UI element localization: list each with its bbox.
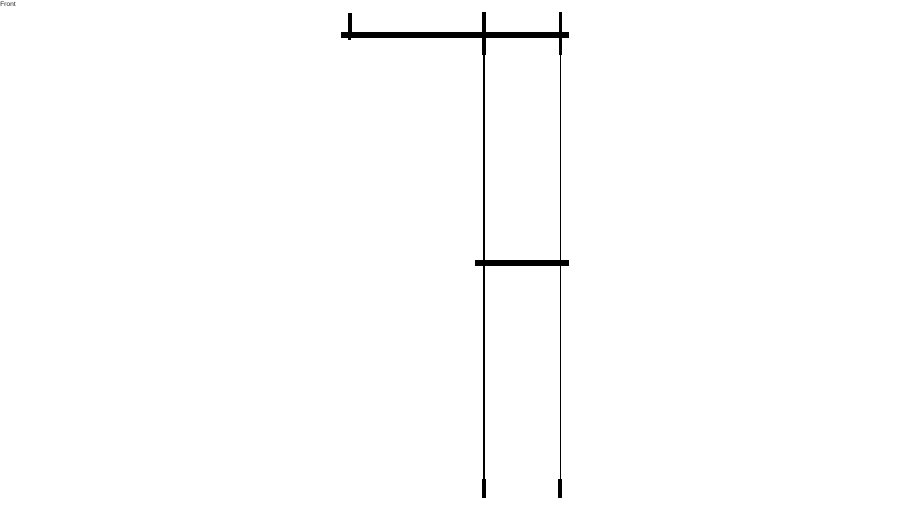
node D: left foot	[482, 479, 486, 499]
node B: middle post thick section	[482, 12, 486, 55]
wire: middle post thin line	[483, 54, 485, 479]
wire: top horizontal rail	[341, 32, 569, 38]
wire: right post thin line	[560, 54, 562, 479]
view label "Front"	[0, 1, 16, 9]
wire: middle horizontal rail	[475, 260, 569, 266]
node C: right post thick section	[559, 12, 563, 55]
node A: left upright stub above rail	[348, 13, 351, 33]
node E: right foot	[558, 479, 562, 499]
node A: left stub tiny extension below rail	[348, 38, 351, 39]
